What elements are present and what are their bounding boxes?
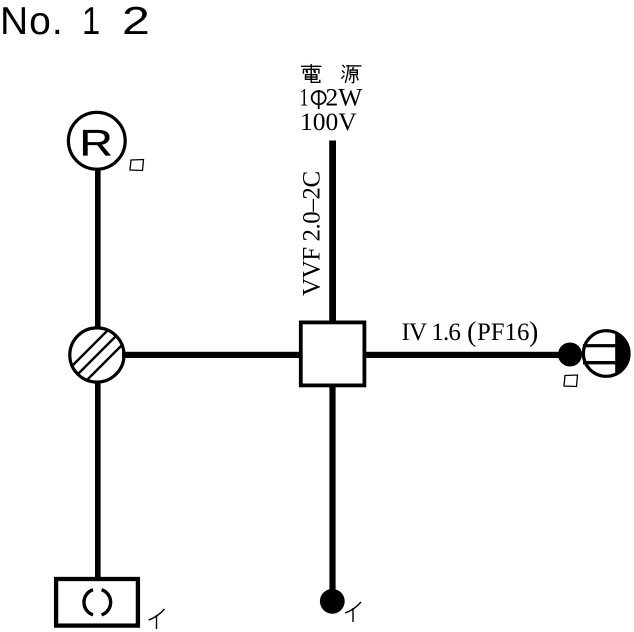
wire from box down to switch イ (329, 385, 335, 595)
svg-text:PF16: PF16 (477, 319, 529, 346)
label IV 1.6 (PF16) (402, 317, 539, 348)
svg-text:1: 1 (82, 0, 100, 43)
power source label 1φ2W (300, 83, 364, 112)
wire from box right to switch ロ (364, 352, 560, 358)
svg-text:R: R (79, 122, 112, 164)
svg-text:VVF 2.0–2C: VVF 2.0–2C (299, 171, 326, 296)
label イ (bottom middle) (345, 602, 361, 622)
power source label 電 (302, 65, 321, 83)
wall outlet (circle, wall side filled, two bars) (583, 331, 631, 377)
wire from joint box right to outlet box (122, 352, 302, 358)
lamp receptacle R (68, 112, 125, 169)
switch イ (filled dot) (320, 589, 345, 614)
svg-text:): ) (529, 317, 538, 348)
joint box (hatched circle) (60, 304, 134, 407)
svg-text:IV 1.6: IV 1.6 (402, 319, 461, 346)
wire from lamp R down to joint box (95, 169, 101, 328)
power source label 源 (342, 65, 361, 82)
outlet box (square) (301, 322, 365, 385)
switch ロ (filled dot) (558, 343, 582, 367)
svg-text:100V: 100V (300, 107, 357, 136)
label ロ (near lamp R) (130, 160, 144, 171)
wire from joint box down to fixture イ (95, 381, 101, 578)
svg-text:2: 2 (122, 0, 150, 42)
light fixture イ (box with lamp) (56, 579, 138, 626)
svg-text:(: ( (467, 317, 476, 348)
svg-text:No.: No. (0, 0, 64, 43)
label イ (near fixture) (149, 609, 165, 629)
title No.12 (0, 0, 150, 43)
label ロ (near right switch) (564, 375, 578, 387)
power feed wire (vertical from source to box) (329, 141, 336, 323)
